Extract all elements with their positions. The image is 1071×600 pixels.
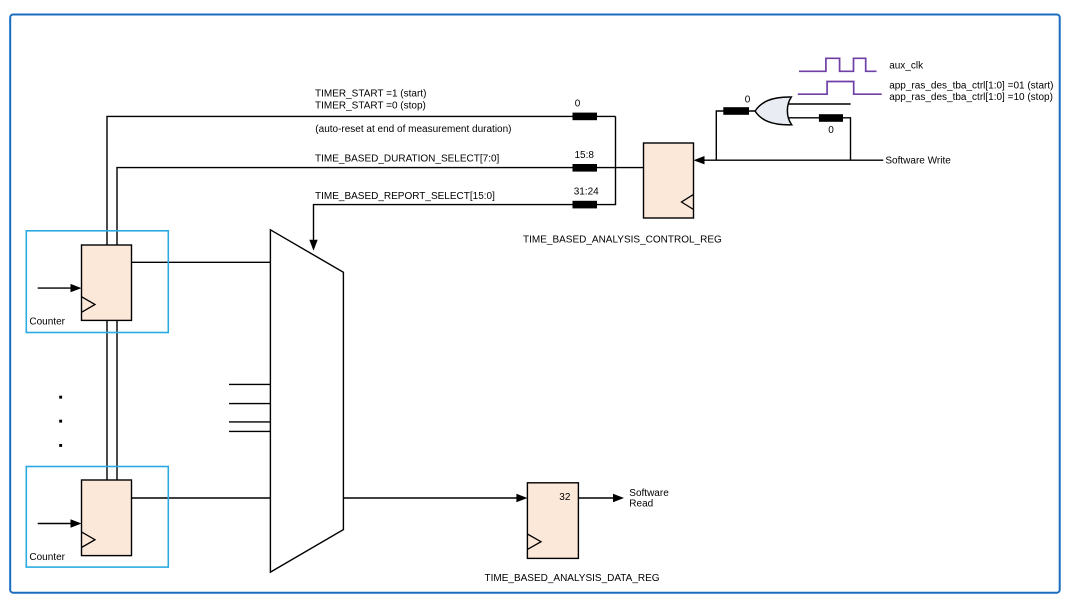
svg-text:aux_clk: aux_clk	[889, 61, 924, 72]
svg-text:TIME_BASED_ANALYSIS_DATA_REG: TIME_BASED_ANALYSIS_DATA_REG	[485, 573, 660, 584]
svg-text:app_ras_des_tba_ctrl[1:0] =01: app_ras_des_tba_ctrl[1:0] =01 (start)	[889, 81, 1053, 92]
svg-text:TIME_BASED_ANALYSIS_CONTROL_RE: TIME_BASED_ANALYSIS_CONTROL_REG	[523, 234, 722, 245]
svg-text:TIMER_START =1 (start): TIMER_START =1 (start)	[315, 89, 426, 100]
svg-text:app_ras_des_tba_ctrl[1:0] =10: app_ras_des_tba_ctrl[1:0] =10 (stop)	[889, 92, 1053, 103]
svg-text:15:8: 15:8	[575, 150, 595, 161]
svg-text:TIME_BASED_DURATION_SELECT[7:0: TIME_BASED_DURATION_SELECT[7:0]	[315, 154, 500, 165]
svg-text:Software Write: Software Write	[885, 155, 951, 166]
svg-text:(auto-reset at end of measurem: (auto-reset at end of measurement durati…	[315, 124, 511, 135]
svg-text:Counter: Counter	[29, 317, 65, 328]
svg-text:Read: Read	[629, 498, 653, 509]
svg-text:31:24: 31:24	[574, 187, 599, 198]
svg-text:Counter: Counter	[29, 552, 65, 563]
svg-text:32: 32	[559, 492, 571, 503]
svg-text:0: 0	[575, 99, 581, 110]
svg-text:TIMER_START =0 (stop): TIMER_START =0 (stop)	[315, 100, 426, 111]
svg-text:0: 0	[828, 125, 834, 136]
svg-text:Software: Software	[629, 488, 669, 499]
svg-text:TIME_BASED_REPORT_SELECT[15:0]: TIME_BASED_REPORT_SELECT[15:0]	[315, 191, 495, 202]
svg-text:0: 0	[745, 95, 751, 106]
